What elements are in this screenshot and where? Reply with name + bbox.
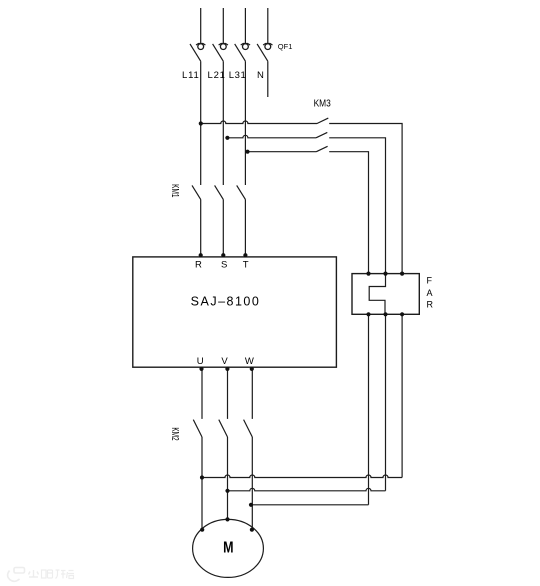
node U terminal xyxy=(199,367,203,371)
svg-text:U: U xyxy=(197,356,204,367)
motor M circle xyxy=(193,519,264,577)
breaker QF1 pole N xyxy=(257,44,272,62)
node W terminal xyxy=(250,367,254,371)
wire R to box xyxy=(200,199,202,257)
node R terminal xyxy=(199,253,203,257)
wire L3 top feeder xyxy=(244,8,246,43)
wire L3 below breaker xyxy=(244,61,246,185)
wire N top feeder xyxy=(267,8,269,43)
svg-text:L11: L11 xyxy=(182,70,200,81)
wire row C with KM3 pole 3 xyxy=(246,146,369,273)
svg-text:KM2: KM2 xyxy=(170,427,182,440)
node V terminal xyxy=(225,367,229,371)
contactor KM1 pole 2 xyxy=(215,185,224,199)
wire T to box xyxy=(244,199,246,257)
node row B tap xyxy=(225,136,229,140)
node row 1 tap on U xyxy=(200,475,204,479)
contactor KM2 pole 1 xyxy=(193,420,202,437)
wire L1 below breaker xyxy=(200,61,202,185)
node motor U xyxy=(200,528,204,532)
wire right vertical B below FAR xyxy=(385,314,387,491)
wire row 3 motor feedback xyxy=(252,504,368,506)
svg-text:R: R xyxy=(195,260,202,271)
node FAR bottom right xyxy=(400,312,404,316)
thermal relay FAR heater zigzag xyxy=(369,274,385,315)
node S terminal xyxy=(221,253,225,257)
svg-text:V: V xyxy=(221,356,228,367)
wire row 2 motor feedback xyxy=(228,488,386,491)
wire W to motor xyxy=(251,437,253,530)
wire row 1 motor feedback xyxy=(202,475,402,478)
wire row B with KM3 pole 2 xyxy=(226,132,386,273)
node motor V xyxy=(225,517,229,521)
contactor KM2 pole 3 xyxy=(244,420,253,437)
svg-text:A: A xyxy=(427,288,433,298)
svg-text:KM1: KM1 xyxy=(170,184,182,197)
thermal relay FAR box xyxy=(352,274,419,315)
svg-text:L21: L21 xyxy=(208,70,226,81)
wire right vertical C below FAR xyxy=(368,314,370,505)
contactor KM2 pole 2 xyxy=(219,420,228,437)
svg-text:QF1: QF1 xyxy=(278,42,293,51)
breaker QF1 pole 3 xyxy=(235,44,250,62)
wire L2 below breaker xyxy=(222,61,224,185)
svg-text:M: M xyxy=(223,539,233,557)
node row 2 tap on V xyxy=(225,489,229,493)
wire L1 top feeder xyxy=(200,8,202,43)
svg-text:T: T xyxy=(243,260,249,271)
wire N below breaker xyxy=(267,61,269,97)
svg-text:KM3: KM3 xyxy=(314,98,331,110)
watermark logo xyxy=(8,568,74,582)
node FAR top right xyxy=(400,272,404,276)
wire V to motor xyxy=(227,437,229,519)
wire S to box xyxy=(222,199,224,257)
wire L2 top feeder xyxy=(222,8,224,43)
wire right vertical A below FAR xyxy=(401,314,403,477)
node FAR bottom left xyxy=(366,312,370,316)
svg-text:R: R xyxy=(427,300,434,310)
node FAR top left xyxy=(366,272,370,276)
node FAR bottom middle xyxy=(383,312,387,316)
svg-text:SAJ–8100: SAJ–8100 xyxy=(191,294,261,308)
node FAR top middle xyxy=(383,272,387,276)
node row C tap xyxy=(245,150,249,154)
wire U to motor xyxy=(201,437,203,530)
node motor W xyxy=(250,528,254,532)
wire W below box xyxy=(251,367,253,419)
inverter SAJ-8100 box xyxy=(133,257,337,367)
wire row A with KM3 pole 1 xyxy=(201,118,402,274)
svg-text:W: W xyxy=(245,356,254,367)
node row 3 tap on W xyxy=(249,503,253,507)
node row A tap on L1 xyxy=(199,121,203,125)
wire U below box xyxy=(201,367,203,419)
svg-text:N: N xyxy=(257,70,264,81)
node T terminal xyxy=(243,253,247,257)
svg-text:F: F xyxy=(427,276,433,286)
svg-text:L31: L31 xyxy=(229,70,247,81)
breaker QF1 pole 1 xyxy=(190,44,205,62)
wire V below box xyxy=(227,367,229,419)
svg-text:S: S xyxy=(221,260,227,271)
breaker QF1 pole 2 xyxy=(213,44,228,62)
contactor KM1 pole 3 xyxy=(237,185,246,199)
contactor KM1 pole 1 xyxy=(192,185,201,199)
